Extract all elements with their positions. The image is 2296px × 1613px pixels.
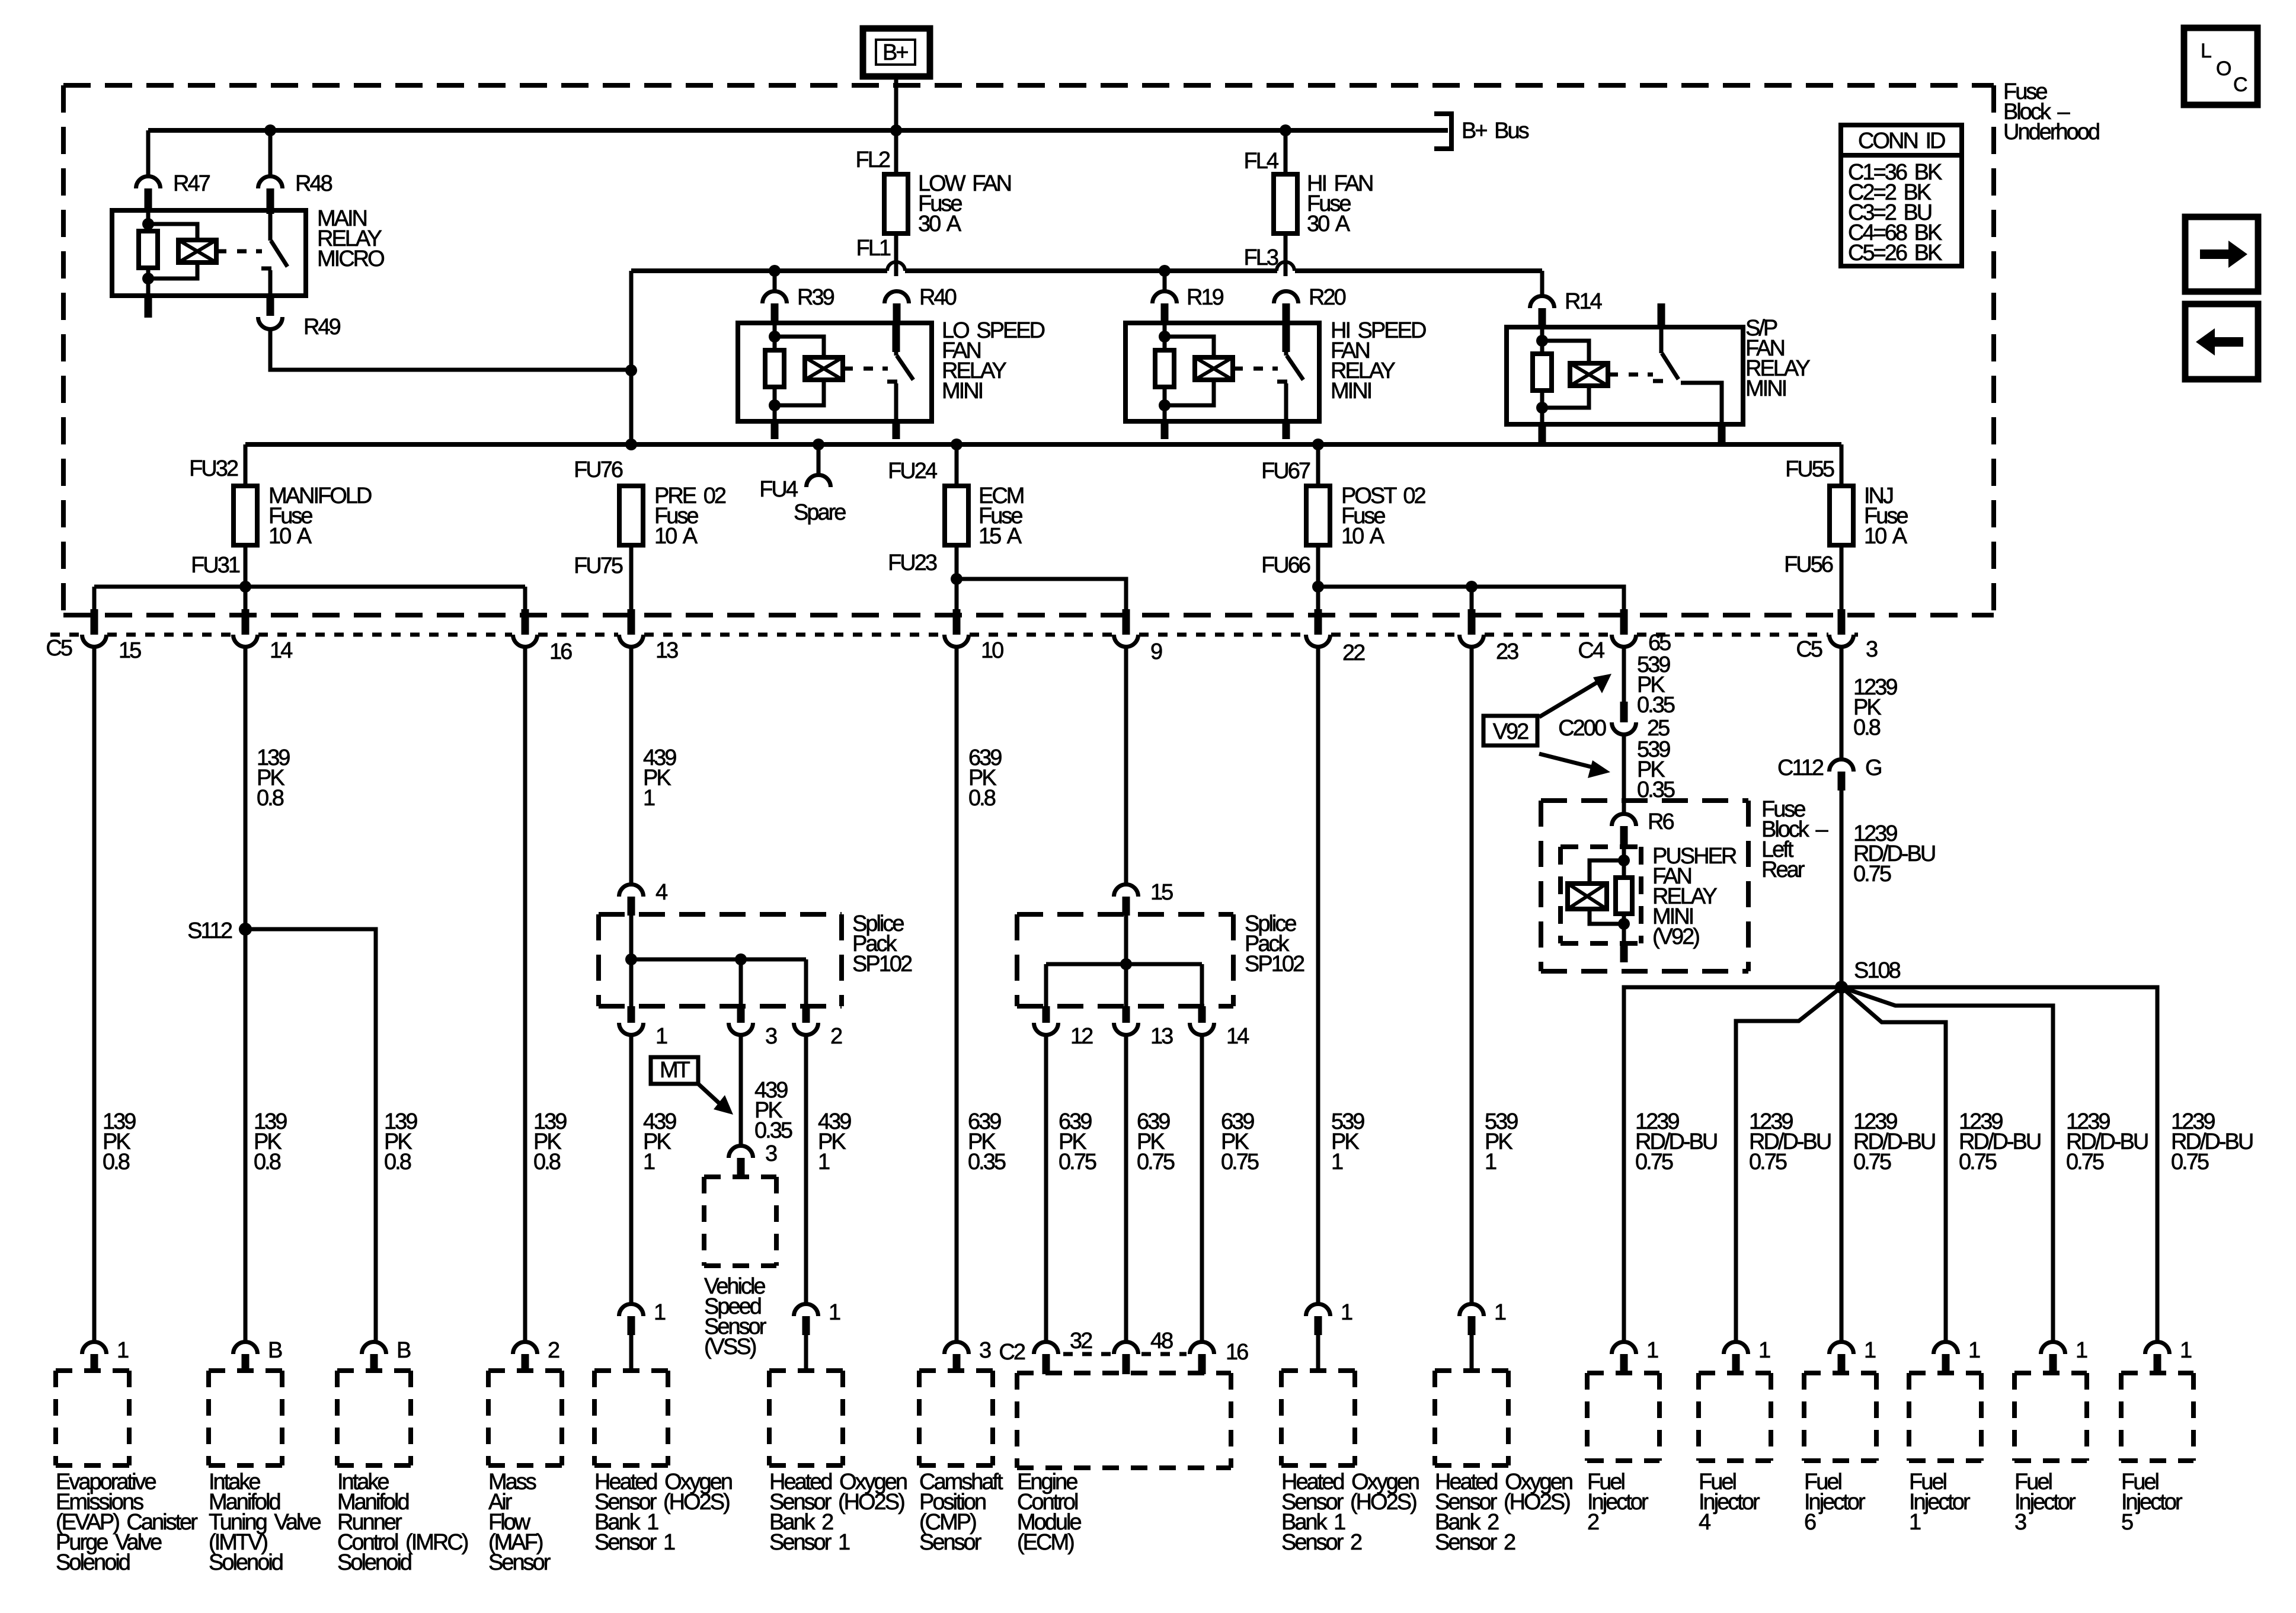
fuse FU32-FU31 MANIFOLD 10A	[234, 486, 257, 545]
svg-text:0.8: 0.8	[384, 1150, 411, 1174]
svg-text:1: 1	[1968, 1338, 1980, 1363]
relay K-sp S/P FAN RELAY MINI	[1507, 327, 1743, 424]
svg-text:FL4: FL4	[1244, 149, 1279, 174]
terminal ECM 32	[1034, 1342, 1059, 1355]
svg-text:Sensor 1: Sensor 1	[769, 1530, 850, 1555]
component Fuel Injector 2 box	[1587, 1371, 1659, 1375]
svg-text:30 A: 30 A	[918, 212, 962, 236]
wire 1239 PK to C112	[1840, 648, 1844, 759]
wire FU55	[1840, 444, 1844, 487]
node FU24	[951, 439, 962, 450]
terminal SP102 out 3	[737, 1006, 745, 1023]
wire B+ to bus	[894, 73, 898, 130]
svg-text:65: 65	[1648, 631, 1671, 655]
terminal R49	[267, 296, 274, 316]
svg-text:C4: C4	[1578, 638, 1604, 663]
component box	[488, 1368, 562, 1373]
terminal pin 13	[628, 609, 635, 635]
svg-text:0.8: 0.8	[103, 1150, 130, 1174]
svg-text:R47: R47	[173, 171, 210, 196]
svg-text:10 A: 10 A	[654, 524, 698, 549]
symbol arrow left	[2185, 304, 2258, 379]
svg-text:1: 1	[1646, 1338, 1658, 1363]
svg-text:FU4: FU4	[759, 477, 798, 502]
svg-text:C200: C200	[1558, 716, 1606, 741]
svg-text:22: 22	[1342, 641, 1365, 665]
wire to pin 9	[957, 579, 1126, 613]
svg-text:FL1: FL1	[856, 236, 891, 261]
terminal ECM 48	[1114, 1342, 1139, 1355]
fuse FU24-FU23 ECM 15A	[945, 486, 968, 545]
wire FU24	[955, 444, 959, 487]
terminal FI6 pin 1	[1830, 1342, 1854, 1355]
terminal pin 1	[619, 1304, 644, 1317]
svg-text:FU24: FU24	[888, 459, 938, 484]
svg-text:0.75: 0.75	[2066, 1150, 2104, 1174]
terminal pin 16	[522, 609, 529, 635]
wire S108 to FI1	[1841, 987, 1946, 1341]
wire to R48	[268, 130, 273, 176]
svg-text:9: 9	[1150, 639, 1162, 664]
svg-text:30 A: 30 A	[1307, 212, 1351, 236]
svg-text:0.8: 0.8	[1853, 715, 1881, 740]
terminal pin 1	[1306, 1304, 1331, 1317]
svg-text:10: 10	[981, 638, 1003, 663]
component Fuel Injector 6 box	[1804, 1371, 1876, 1375]
svg-text:1: 1	[2076, 1338, 2087, 1363]
svg-text:Sensor 2: Sensor 2	[1281, 1530, 1362, 1555]
svg-text:R49: R49	[303, 315, 341, 340]
wire R49 to relay feed	[270, 330, 631, 370]
svg-text:13: 13	[655, 638, 678, 663]
terminal R14	[1530, 296, 1555, 308]
svg-text:B+ Bus: B+ Bus	[1462, 119, 1529, 143]
node SP102-2 junction	[1120, 958, 1132, 970]
wire to R14	[1540, 271, 1544, 295]
svg-text:2: 2	[1587, 1510, 1599, 1535]
svg-text:15 A: 15 A	[978, 524, 1022, 549]
svg-text:MINI: MINI	[1331, 379, 1371, 404]
terminal SP102 pin4	[619, 885, 644, 897]
svg-text:1: 1	[654, 1300, 666, 1325]
terminal R6	[1612, 814, 1636, 827]
node FU76 riser	[625, 439, 637, 450]
svg-text:13: 13	[1150, 1024, 1173, 1049]
symbol arrow right	[2185, 217, 2258, 292]
wire 639 PK to SP102-2	[1124, 648, 1128, 884]
svg-text:MINI: MINI	[1745, 376, 1786, 401]
svg-text:Sensor 2: Sensor 2	[1435, 1530, 1515, 1555]
wire FL3	[1284, 233, 1288, 276]
svg-text:10 A: 10 A	[1864, 524, 1908, 549]
fuse block left rear border	[1541, 798, 1748, 803]
terminal SP102 out 2	[802, 1006, 810, 1023]
relay K-pusher box	[1560, 844, 1641, 849]
svg-text:0.8: 0.8	[254, 1150, 281, 1174]
svg-text:0.75: 0.75	[1221, 1150, 1259, 1174]
terminal C200 25	[1620, 702, 1628, 722]
node pin23 branch	[1466, 581, 1478, 593]
terminal R40	[885, 291, 909, 303]
terminal FI2 pin 1	[1612, 1342, 1636, 1355]
terminal pin 1	[1460, 1304, 1484, 1317]
svg-text:SP102: SP102	[1245, 952, 1304, 977]
svg-text:S108: S108	[1854, 958, 1901, 983]
svg-text:FL3: FL3	[1244, 245, 1278, 270]
svg-text:Sensor 1: Sensor 1	[594, 1530, 675, 1555]
terminal FI3 pin 1	[2041, 1342, 2065, 1355]
fuse FL2-FL1 LOW FAN 30A	[884, 174, 908, 233]
wire to R39	[773, 271, 777, 292]
fuse FU67-FU66 POST02 10A	[1306, 486, 1330, 545]
wire S108 to FI3	[1841, 987, 2053, 1341]
terminal R48	[258, 177, 283, 189]
svg-text:R14: R14	[1565, 289, 1603, 314]
terminal pin 15	[91, 609, 98, 635]
wire SP102-1 out3 to VSS	[739, 1036, 743, 1145]
component box	[594, 1368, 668, 1373]
wire 539 PK C4 to C200	[1622, 648, 1626, 702]
svg-text:0.75: 0.75	[1137, 1150, 1175, 1174]
wire FU31	[244, 544, 248, 587]
wire S108 to FI6	[1840, 987, 1844, 1341]
node FU67	[1312, 439, 1324, 450]
svg-text:FL2: FL2	[856, 148, 890, 172]
svg-text:C5=26 BK: C5=26 BK	[1848, 241, 1942, 265]
terminal FU4 spare	[807, 475, 831, 488]
wire FU66	[1316, 544, 1320, 613]
terminal pin 3	[945, 1342, 969, 1355]
component box	[769, 1368, 843, 1373]
node pin14	[239, 581, 251, 593]
component box	[209, 1368, 282, 1373]
svg-text:FU23: FU23	[888, 551, 937, 575]
wire FU32	[244, 444, 248, 487]
node SP102 junction	[625, 953, 637, 965]
component box	[1435, 1368, 1508, 1373]
svg-text:R20: R20	[1309, 285, 1346, 310]
svg-text:14: 14	[1226, 1024, 1249, 1049]
symbol LOC	[2184, 28, 2257, 105]
svg-text:16: 16	[549, 639, 572, 664]
relay K-lo LO SPEED FAN RELAY MINI	[738, 323, 932, 421]
svg-text:FU67: FU67	[1261, 459, 1310, 484]
wire S108 to FI5	[1841, 987, 2157, 1341]
terminal FI1 pin 1	[1934, 1342, 1958, 1355]
wire FU56	[1840, 544, 1844, 613]
svg-text:Rear: Rear	[1761, 857, 1805, 882]
svg-text:(ECM): (ECM)	[1017, 1530, 1074, 1555]
svg-text:C5: C5	[46, 636, 72, 661]
svg-text:Underhood: Underhood	[2003, 120, 2099, 145]
svg-text:FU32: FU32	[189, 456, 238, 481]
wire to R47	[146, 130, 151, 176]
terminal pin 9	[1123, 609, 1130, 635]
wire SP102-1 out1 to HO2S B1S1	[629, 1036, 634, 1303]
svg-text:MT: MT	[660, 1058, 690, 1083]
bus B+ horizontal	[148, 128, 1448, 133]
bus relay feed	[631, 268, 887, 273]
svg-text:1: 1	[1494, 1300, 1506, 1325]
wire SP102-1 out2 to HO2S B2S1	[804, 1036, 808, 1303]
splice S112	[239, 923, 252, 936]
svg-text:Sensor: Sensor	[919, 1530, 982, 1555]
wire to C4-65	[1318, 587, 1624, 613]
svg-text:2: 2	[548, 1338, 559, 1363]
svg-text:16: 16	[1226, 1340, 1248, 1365]
node FL4 junction	[1280, 124, 1291, 136]
component ECM box	[1017, 1371, 1231, 1375]
wire 439 PK to SP102	[629, 648, 634, 884]
svg-text:1: 1	[829, 1300, 840, 1325]
svg-text:R39: R39	[797, 285, 834, 310]
svg-text:1: 1	[1864, 1338, 1876, 1363]
node FU4	[813, 439, 824, 450]
svg-text:2: 2	[830, 1024, 842, 1049]
svg-text:G: G	[1865, 756, 1881, 780]
fuse FU76-FU75 PRE02 10A	[619, 486, 643, 545]
svg-text:15: 15	[119, 638, 141, 663]
svg-text:1: 1	[1758, 1338, 1770, 1363]
component box	[919, 1368, 993, 1373]
wire FU4 spare	[817, 444, 821, 475]
svg-text:Solenoid: Solenoid	[337, 1550, 411, 1575]
wire 539 PK to HO2S B2S2	[1470, 648, 1474, 1303]
svg-text:FU55: FU55	[1785, 457, 1834, 482]
terminal pin 65	[1620, 609, 1628, 635]
svg-text:1: 1	[1331, 1150, 1343, 1174]
wire 539 PK to HO2S B1S2	[1316, 648, 1320, 1303]
svg-text:R6: R6	[1648, 809, 1674, 834]
terminal pin B	[234, 1342, 258, 1355]
svg-text:(V92): (V92)	[1652, 924, 1699, 949]
svg-text:1: 1	[643, 1150, 655, 1174]
svg-text:1: 1	[1909, 1510, 1921, 1535]
component VSS box	[704, 1174, 776, 1179]
svg-text:3: 3	[1866, 637, 1878, 662]
node FU66 split	[1312, 581, 1324, 593]
wire FU67	[1316, 444, 1320, 487]
terminal SP102-2 out 12	[1043, 1006, 1050, 1023]
svg-text:3: 3	[765, 1141, 777, 1166]
terminal pin 22	[1315, 609, 1322, 635]
svg-text:Spare: Spare	[794, 500, 846, 525]
svg-text:SP102: SP102	[852, 952, 912, 977]
node R19 branch	[1159, 265, 1171, 277]
svg-text:FU76: FU76	[574, 457, 623, 482]
wire 139 PK to MAF	[523, 648, 527, 1341]
svg-text:14: 14	[270, 638, 293, 663]
svg-text:0.8: 0.8	[968, 786, 996, 811]
terminal FI4 pin 1	[1724, 1342, 1748, 1355]
svg-text:0.75: 0.75	[1749, 1150, 1787, 1174]
svg-text:3: 3	[765, 1024, 777, 1049]
svg-text:V92: V92	[1493, 719, 1528, 744]
splice pack SP102 box 2	[1017, 912, 1233, 917]
callout V92	[1483, 716, 1537, 745]
wire 139 PK to S112	[244, 648, 248, 1341]
wire FL2	[894, 130, 898, 175]
svg-text:1: 1	[643, 786, 655, 811]
wire FU31 distribution	[94, 585, 525, 589]
svg-text:12: 12	[1070, 1024, 1093, 1049]
terminal pin 1	[794, 1304, 818, 1317]
svg-text:1: 1	[1485, 1150, 1496, 1174]
svg-text:C: C	[2233, 73, 2248, 96]
wire SP102-2 outs to ECM	[1044, 1036, 1048, 1340]
svg-text:0.75: 0.75	[1853, 1150, 1891, 1174]
table CONN ID	[1841, 125, 1962, 266]
terminal FI5 pin 1	[2145, 1342, 2170, 1355]
svg-text:CONN ID: CONN ID	[1858, 129, 1945, 153]
svg-text:1: 1	[1341, 1300, 1352, 1325]
terminal R20	[1274, 291, 1299, 303]
svg-text:1: 1	[818, 1150, 830, 1174]
wire S108 to FI4	[1736, 987, 1841, 1341]
svg-text:4: 4	[655, 880, 668, 905]
wire FL4	[1284, 130, 1288, 175]
terminal VSS pin3	[729, 1145, 753, 1158]
terminal pin 14	[242, 609, 250, 635]
svg-text:32: 32	[1070, 1329, 1092, 1353]
component Fuel Injector 1 box	[1909, 1371, 1981, 1375]
wire S108 to FI2	[1624, 987, 1841, 1341]
svg-text:1: 1	[655, 1024, 667, 1049]
svg-text:B: B	[268, 1338, 282, 1363]
node R49 join	[625, 364, 637, 376]
wire FU75	[629, 544, 634, 613]
svg-text:3: 3	[979, 1338, 991, 1363]
svg-text:0.75: 0.75	[1059, 1150, 1096, 1174]
svg-text:R40: R40	[919, 285, 957, 310]
component Fuel Injector 4 box	[1699, 1371, 1771, 1375]
terminal pin B	[362, 1342, 386, 1355]
fuse FU55-FU56 INJ 10A	[1830, 486, 1853, 545]
node R39 branch	[769, 265, 781, 277]
component Fuel Injector 5 box	[2121, 1371, 2193, 1375]
svg-text:MICRO: MICRO	[317, 247, 384, 271]
terminal pin 2	[513, 1342, 538, 1355]
svg-text:0.8: 0.8	[533, 1150, 561, 1174]
svg-text:Sensor: Sensor	[488, 1550, 551, 1575]
wire C112 to S108	[1840, 791, 1844, 987]
splice pack SP102 box	[599, 912, 842, 917]
svg-text:0.75: 0.75	[1853, 862, 1891, 886]
wire hop at FL3	[1277, 262, 1294, 271]
wire 639 PK to CMP	[955, 648, 959, 1341]
svg-text:FU75: FU75	[574, 553, 623, 578]
wire C200 to R6	[1622, 736, 1626, 813]
terminal ECM 16	[1190, 1342, 1214, 1355]
terminal R47	[136, 177, 161, 189]
terminal SP102-2 out 14	[1198, 1006, 1206, 1023]
svg-text:0.35: 0.35	[754, 1118, 792, 1143]
terminal R39	[763, 291, 787, 303]
svg-text:10 A: 10 A	[1341, 524, 1385, 549]
svg-text:1: 1	[2180, 1338, 2192, 1363]
svg-text:15: 15	[1150, 880, 1173, 905]
svg-text:0.75: 0.75	[2171, 1150, 2209, 1174]
node B+ junction	[890, 124, 902, 136]
svg-text:L: L	[2201, 40, 2212, 62]
svg-text:0.8: 0.8	[257, 786, 284, 811]
svg-text:FU66: FU66	[1261, 553, 1310, 578]
wire to R19	[1163, 271, 1167, 292]
svg-text:Solenoid: Solenoid	[56, 1550, 130, 1575]
svg-text:FU31: FU31	[191, 553, 240, 578]
wire S112 to IMRC	[245, 929, 376, 1341]
svg-text:R48: R48	[295, 171, 332, 196]
callout MT	[651, 1057, 698, 1084]
svg-text:1: 1	[117, 1338, 129, 1363]
svg-text:C5: C5	[1796, 637, 1822, 662]
svg-text:23: 23	[1496, 639, 1518, 664]
wire feed riser left	[629, 271, 634, 445]
terminal C112 G	[1830, 759, 1854, 772]
svg-text:R19: R19	[1187, 285, 1224, 310]
svg-text:0.35: 0.35	[968, 1150, 1006, 1174]
connector B+ Bus	[1434, 114, 1451, 149]
svg-text:4: 4	[1699, 1510, 1711, 1535]
svg-text:O: O	[2216, 57, 2231, 80]
svg-text:(VSS): (VSS)	[704, 1334, 756, 1359]
terminal pin 3	[1838, 609, 1846, 635]
dotted connector row	[50, 633, 81, 637]
fuse FL4-FL3 HI FAN 30A	[1274, 174, 1297, 233]
wire FL1	[894, 233, 898, 276]
node SP102 pin3	[735, 953, 747, 965]
svg-text:MINI: MINI	[942, 379, 983, 404]
svg-text:FU56: FU56	[1784, 552, 1833, 577]
node FU23 split	[951, 573, 962, 585]
svg-text:5: 5	[2121, 1510, 2133, 1535]
wire FU23	[955, 544, 959, 613]
svg-text:3: 3	[2014, 1510, 2026, 1535]
fuse block underhood border (dashed)	[63, 83, 1994, 88]
terminal R19	[1153, 291, 1177, 303]
bus fuse feed	[245, 442, 1841, 447]
terminal SP102-2 out 13	[1123, 1006, 1130, 1023]
splice S108	[1835, 981, 1848, 994]
svg-text:0.35: 0.35	[1637, 693, 1675, 718]
svg-text:48: 48	[1150, 1329, 1173, 1353]
terminal pin 1	[82, 1342, 107, 1354]
component Fuel Injector 3 box	[2014, 1371, 2087, 1375]
component box	[337, 1368, 411, 1373]
svg-text:C112: C112	[1777, 756, 1824, 780]
terminal SP102-2 pin15	[1114, 885, 1139, 897]
svg-text:C2: C2	[999, 1340, 1025, 1365]
svg-text:6: 6	[1804, 1510, 1816, 1535]
svg-text:B: B	[396, 1338, 411, 1363]
terminal SP102 out 1	[628, 1006, 635, 1023]
relay K-hi HI SPEED FAN RELAY MINI	[1125, 323, 1319, 421]
svg-text:S112: S112	[187, 918, 232, 943]
wire 139 PK to EVAP	[92, 648, 97, 1341]
svg-text:Solenoid: Solenoid	[209, 1550, 283, 1575]
node R48 branch	[264, 124, 276, 136]
svg-text:10 A: 10 A	[268, 524, 312, 549]
terminal pin 23	[1468, 609, 1476, 635]
svg-text:0.75: 0.75	[1635, 1150, 1673, 1174]
component box	[56, 1368, 129, 1373]
svg-text:B+: B+	[882, 40, 908, 65]
connector row C2 dashes	[1063, 1352, 1111, 1356]
wire hop at FL1	[887, 262, 905, 271]
relay U-main MAIN RELAY MICRO	[112, 210, 306, 296]
terminal pin 10	[953, 609, 961, 635]
connector B+	[863, 28, 930, 76]
